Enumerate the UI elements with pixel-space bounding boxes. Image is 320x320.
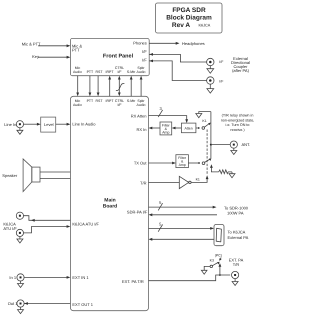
svg-text:RST: RST [96, 70, 104, 74]
connector coupler 2 [207, 77, 214, 84]
svg-text:K6JCA ATU I/F: K6JCA ATU I/F [72, 222, 99, 227]
wire I/F lower to coupler conn 2 [149, 61, 206, 81]
wire mic&ptt [38, 45, 68, 47]
svg-text:K6JCA: K6JCA [199, 24, 211, 28]
svg-text:RST: RST [96, 99, 104, 103]
svg-text:(PC): (PC) [215, 254, 222, 258]
svg-text:In 1: In 1 [9, 275, 16, 280]
svg-text:External PA: External PA [228, 235, 249, 240]
svg-text:receive.): receive.) [230, 128, 244, 132]
filter amp box rx [160, 122, 172, 135]
svg-text:Out 1: Out 1 [8, 301, 19, 306]
ATU connector 2 [16, 229, 23, 236]
resistor [219, 170, 232, 174]
RX atten bus [149, 116, 187, 122]
svg-text:Block Diagram: Block Diagram [166, 15, 212, 22]
wire atu out [24, 216, 71, 221]
svg-text:S-Mtr: S-Mtr [127, 99, 136, 103]
wire ctrl i/f [118, 78, 120, 95]
wire s-mtr [130, 78, 132, 97]
level box [41, 117, 56, 132]
svg-text:Audio: Audio [73, 70, 82, 74]
ground under conn 2 [209, 84, 211, 88]
K3 switch [210, 265, 212, 267]
EXT PA bus out [149, 227, 213, 229]
svg-text:PTT: PTT [87, 99, 94, 103]
svg-text:To K6JCA: To K6JCA [228, 230, 246, 235]
svg-text:RX In: RX In [136, 127, 146, 132]
svg-text:Front Panel: Front Panel [103, 54, 134, 60]
wire atten to filter [173, 127, 181, 129]
TX out wire [149, 162, 175, 164]
svg-text:S-Mtr: S-Mtr [127, 70, 136, 74]
svg-text:I/F: I/F [117, 103, 121, 107]
svg-text:RX Atten: RX Atten [131, 114, 147, 119]
DB connector to external PA [214, 225, 224, 246]
svg-text:i.e. Turn ON to: i.e. Turn ON to [226, 123, 250, 127]
ground after resistor [231, 172, 233, 174]
speaker [32, 167, 40, 182]
svg-text:T/R: T/R [233, 262, 240, 267]
wire I/F upper to coupler conn 1 [149, 54, 206, 62]
svg-text:Rev A: Rev A [172, 22, 190, 29]
bus slash 3 [158, 110, 162, 117]
svg-text:Line In: Line In [4, 122, 16, 127]
actuation arrow [220, 258, 221, 260]
svg-text:I/F: I/F [142, 57, 147, 62]
svg-text:100W PA: 100W PA [227, 211, 244, 216]
wire atu in [24, 227, 69, 233]
svg-text:Amp: Amp [179, 163, 186, 167]
SDR PA bus out [149, 206, 216, 208]
wire irpt [109, 78, 111, 97]
svg-text:Line In Audio: Line In Audio [72, 122, 96, 127]
wire line-in connector to level [16, 121, 23, 128]
EXT PA TR connector [232, 271, 239, 278]
svg-text:(T/R relay shown in: (T/R relay shown in [222, 114, 254, 118]
wire spkr audio [140, 78, 142, 97]
svg-text:Headphones: Headphones [182, 41, 205, 46]
bus squiggle on ctrl [116, 83, 125, 90]
svg-text:Board: Board [103, 204, 117, 210]
svg-text:Atten: Atten [185, 127, 193, 131]
wire level to board [56, 123, 69, 125]
svg-text:PTT: PTT [87, 70, 94, 74]
filter amp box tx [176, 155, 189, 168]
inverter driver [179, 176, 188, 188]
EXT OUT 1 connector [17, 300, 24, 307]
svg-text:SDR-PA I/F: SDR-PA I/F [127, 209, 148, 214]
svg-text:T/R: T/R [140, 181, 147, 186]
wire to ANT [211, 144, 230, 146]
ground under conn 1 [209, 66, 211, 69]
svg-text:EXT OUT 1: EXT OUT 1 [72, 302, 93, 307]
svg-text:I/F: I/F [142, 49, 147, 54]
svg-text:EXT. PA T/R: EXT. PA T/R [122, 279, 144, 284]
dashed relay link [206, 130, 208, 176]
svg-text:Amp: Amp [162, 130, 169, 134]
svg-text:FPGA SDR: FPGA SDR [172, 7, 206, 14]
svg-text:Level: Level [44, 122, 54, 127]
svg-text:I/F: I/F [219, 60, 223, 64]
svg-text:Phones: Phones [133, 40, 147, 45]
SDR PA bus in [150, 214, 217, 216]
title box [156, 3, 223, 33]
svg-text:TX Out: TX Out [134, 161, 148, 166]
ATU connector 1 [16, 212, 23, 219]
wire headphones [149, 42, 178, 44]
svg-text:To SDR-1000: To SDR-1000 [224, 205, 249, 210]
wire mic audio [77, 76, 79, 95]
K3 ground [204, 266, 210, 270]
svg-text:Mic & PTT: Mic & PTT [22, 42, 41, 47]
wire key [38, 56, 68, 58]
svg-text:ANT.: ANT. [242, 142, 251, 147]
T/R wire to inverter [149, 181, 180, 183]
K2 NO contact with resistor to ground [210, 164, 213, 168]
connector coupler 1 [207, 58, 214, 65]
svg-text:(after PA): (after PA) [232, 68, 249, 73]
svg-text:I/F: I/F [219, 80, 223, 84]
EXT IN 1 connector [17, 274, 24, 281]
wire ext out 1 [24, 303, 70, 305]
wire tx filter to relay [188, 162, 198, 164]
antenna trunk vertical [210, 112, 212, 159]
main board box [70, 96, 148, 310]
svg-text:Audio: Audio [137, 70, 146, 74]
atten box [181, 123, 196, 133]
K1 ground loop [199, 112, 211, 114]
relay K1 contacts [196, 127, 198, 129]
wire ptt [89, 76, 91, 95]
svg-text:IRPT: IRPT [106, 99, 115, 103]
front panel box [70, 38, 149, 75]
svg-text:ATU I/F: ATU I/F [3, 226, 17, 231]
svg-text:Audio: Audio [137, 103, 146, 107]
svg-text:EXT IN 1: EXT IN 1 [72, 275, 89, 280]
svg-text:I/F: I/F [117, 70, 121, 74]
svg-text:K3: K3 [210, 259, 214, 263]
ANT connector [230, 141, 237, 148]
svg-text:Speaker: Speaker [2, 173, 18, 178]
svg-text:IRPT: IRPT [106, 70, 115, 74]
wire ext in 1 [24, 276, 69, 278]
wire filter to board rx in [150, 127, 160, 129]
wire rst [97, 76, 99, 95]
svg-text:Key: Key [32, 54, 39, 59]
speaker wires [40, 171, 70, 173]
svg-text:non-energized state,: non-energized state, [221, 118, 255, 122]
ground under ATU 2 [19, 237, 21, 240]
ext pa t/r wire [149, 275, 231, 281]
svg-text:K1: K1 [196, 177, 200, 181]
EXT PA bus in [150, 238, 214, 240]
svg-text:PTT: PTT [72, 48, 80, 53]
svg-text:Audio: Audio [73, 103, 82, 107]
svg-text:K1: K1 [202, 119, 206, 123]
